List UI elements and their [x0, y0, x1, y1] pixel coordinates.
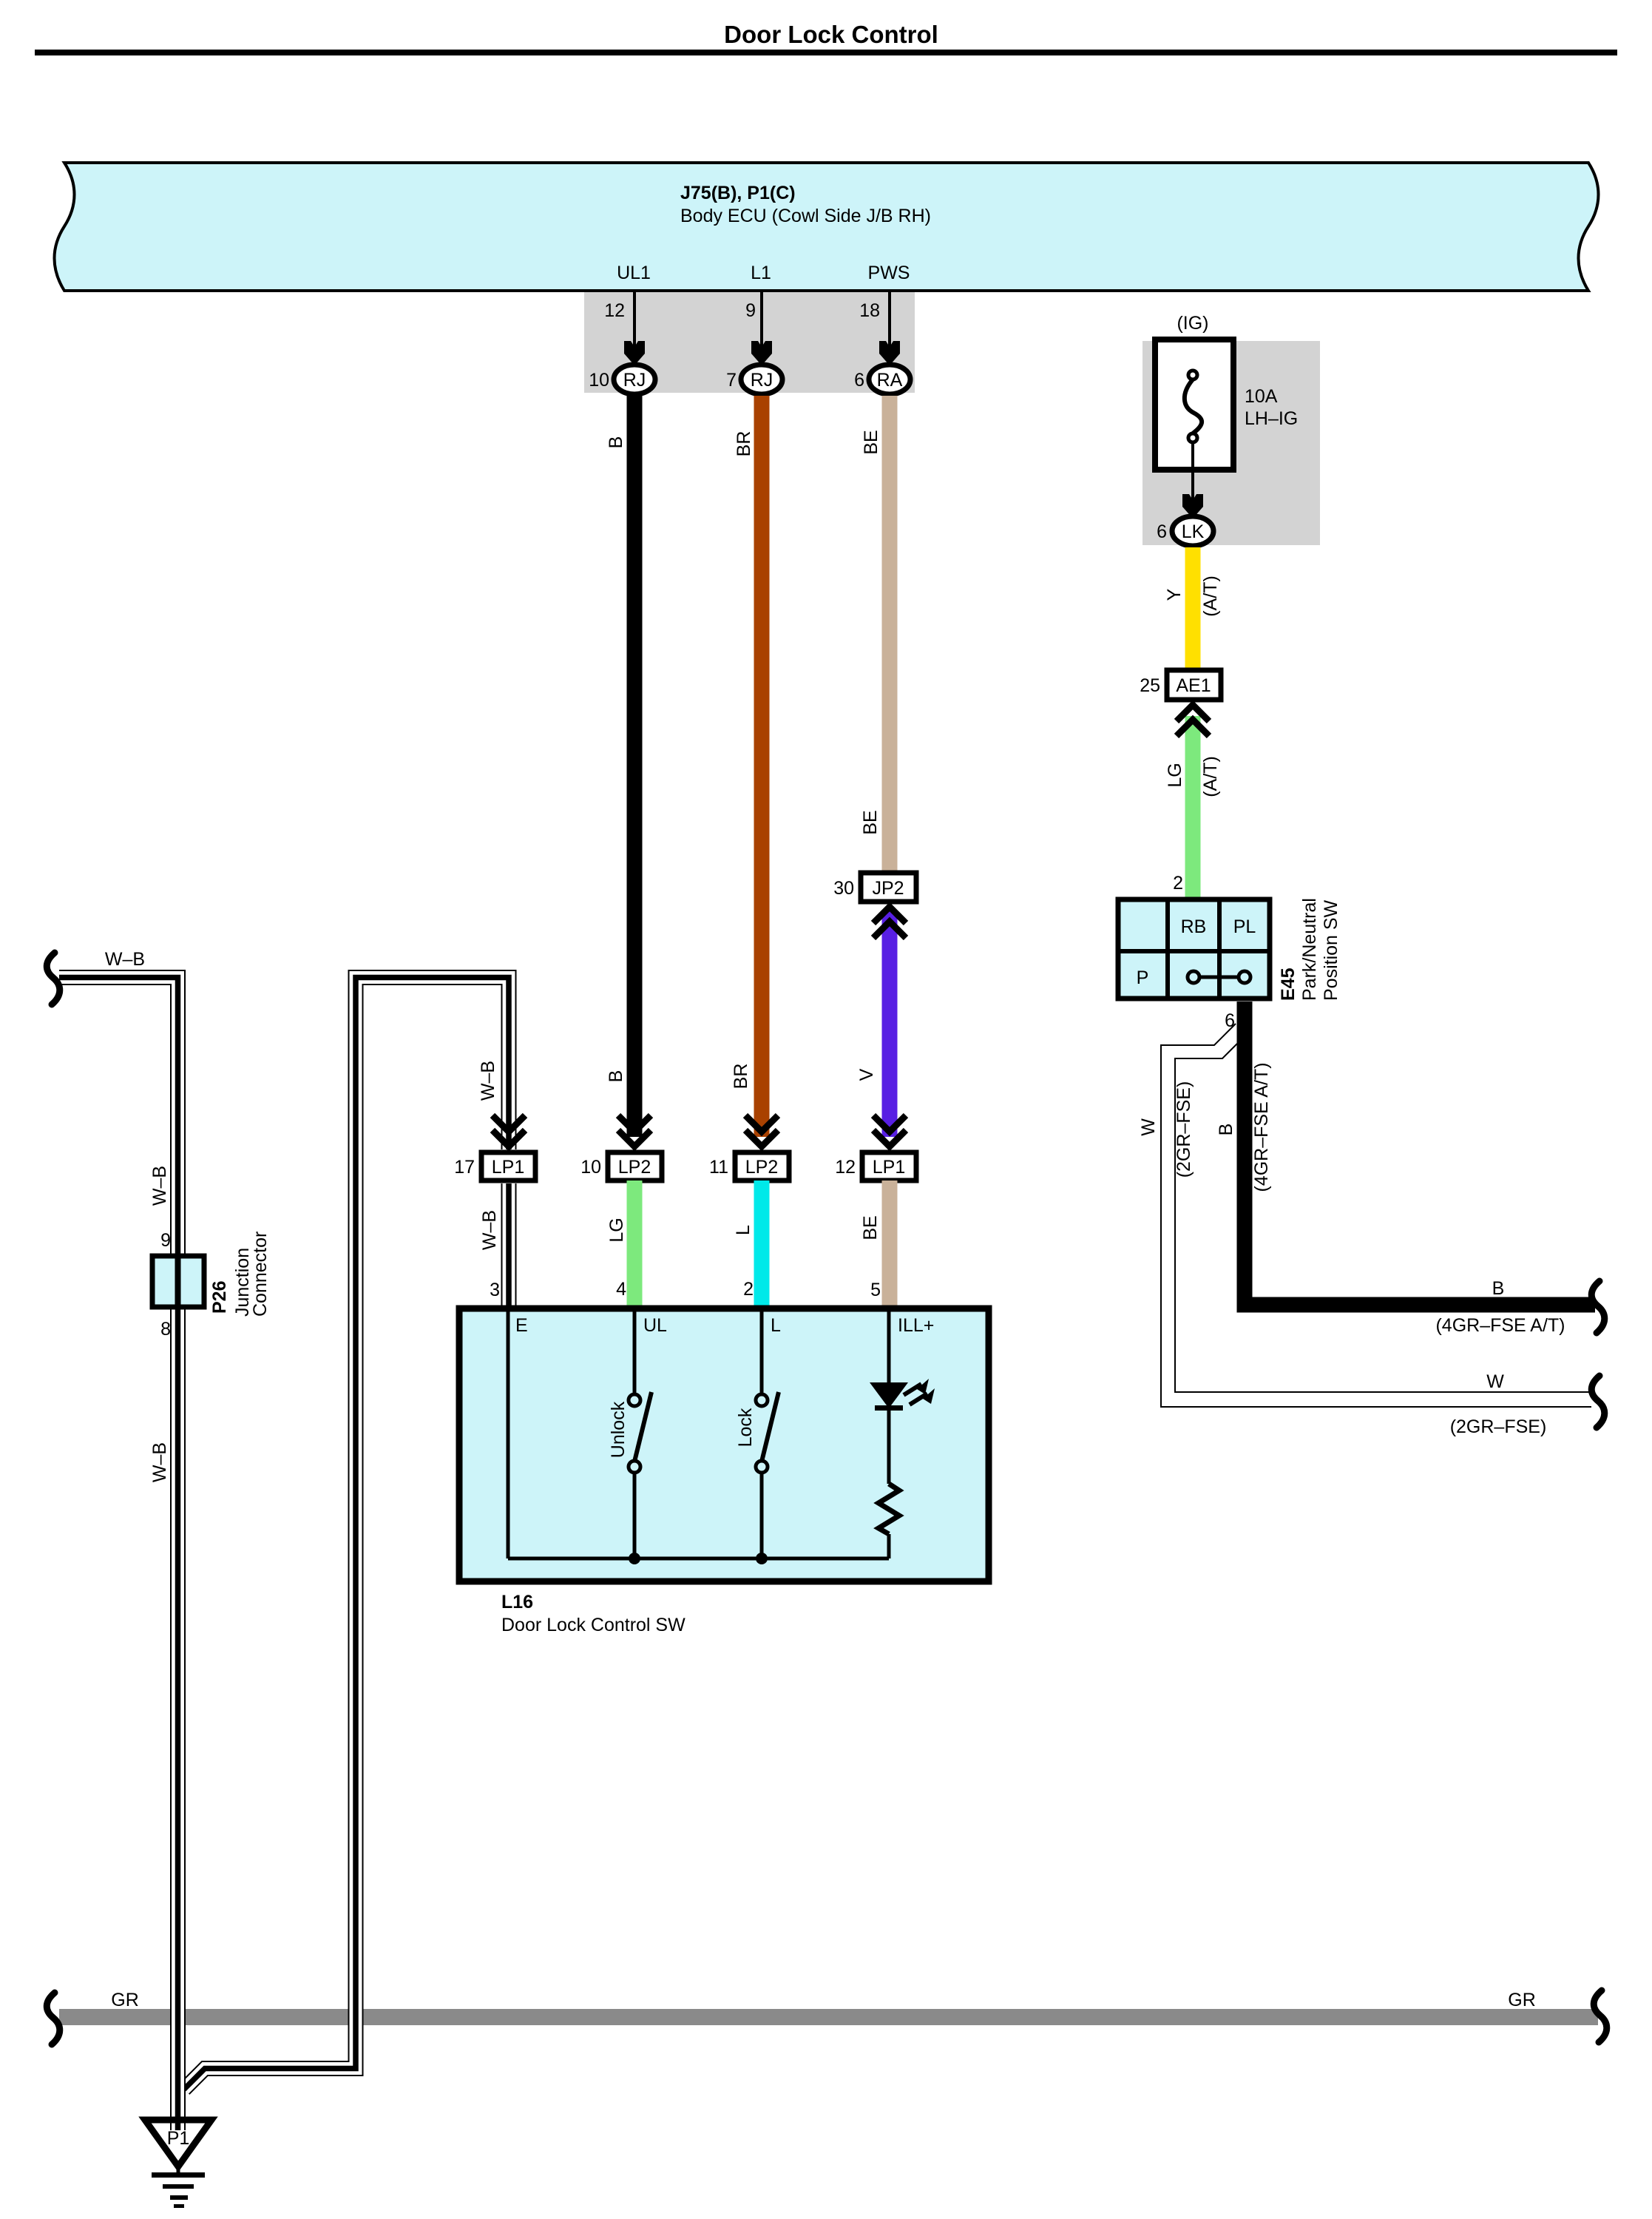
svg-text:BR: BR — [734, 431, 754, 457]
svg-text:L16: L16 — [501, 1592, 533, 1612]
svg-text:L: L — [771, 1315, 781, 1336]
svg-text:(IG): (IG) — [1177, 313, 1208, 334]
resistor — [879, 1484, 899, 1534]
svg-text:LP1: LP1 — [492, 1157, 524, 1178]
LED emission arrows — [904, 1384, 921, 1395]
svg-text:UL: UL — [643, 1315, 667, 1336]
wire BR brown from RJ7 down to LP2 — [754, 396, 770, 1137]
connector J75(B) P1(C) Body ECU box — [55, 163, 1599, 291]
svg-text:LH–IG: LH–IG — [1245, 408, 1298, 429]
svg-text:Connector: Connector — [250, 1232, 271, 1317]
svg-text:BE: BE — [860, 810, 881, 834]
component L16 Door Lock Control SW box — [459, 1308, 989, 1581]
svg-text:E45: E45 — [1278, 967, 1299, 1001]
svg-text:10: 10 — [589, 370, 609, 391]
connector oval RJ (7) — [741, 365, 782, 394]
svg-text:ILL+: ILL+ — [898, 1315, 934, 1336]
gray panel behind RJ/RA connectors — [584, 292, 915, 393]
svg-text:Y: Y — [1164, 588, 1185, 601]
wire B black (4GR-FSE A/T) from E45 pin 6 — [1245, 1002, 1595, 1305]
svg-text:V: V — [856, 1068, 877, 1081]
svg-text:6: 6 — [854, 370, 864, 391]
svg-text:W–B: W–B — [105, 949, 145, 970]
svg-text:6: 6 — [1157, 521, 1167, 542]
ground P1 — [145, 2120, 211, 2166]
svg-text:2: 2 — [1173, 873, 1183, 894]
svg-text:12: 12 — [835, 1157, 856, 1178]
svg-text:7: 7 — [726, 370, 737, 391]
svg-text:(4GR–FSE A/T): (4GR–FSE A/T) — [1435, 1315, 1565, 1336]
wire W white (2GR-FSE) from E45 pin 6 — [1161, 1024, 1591, 1407]
svg-text:25: 25 — [1140, 675, 1160, 696]
chevron down above LP2 (10) — [618, 1115, 651, 1146]
svg-text:W: W — [1138, 1118, 1159, 1136]
svg-text:E: E — [515, 1315, 528, 1336]
svg-text:BE: BE — [860, 1215, 881, 1240]
svg-text:B: B — [606, 436, 626, 449]
wire stub pin 18 to RA — [888, 291, 891, 348]
wire stub pin 9 to RJ — [760, 291, 763, 348]
svg-text:(2GR–FSE): (2GR–FSE) — [1450, 1416, 1547, 1437]
chevron down above LP1 (17) — [492, 1115, 525, 1146]
svg-text:9: 9 — [160, 1230, 171, 1251]
connector oval RJ (10) — [614, 365, 655, 394]
connector LP1 (17) — [481, 1152, 535, 1181]
svg-text:GR: GR — [1508, 1990, 1536, 2010]
svg-text:Position SW: Position SW — [1321, 899, 1341, 1001]
svg-text:LP2: LP2 — [618, 1157, 651, 1178]
internal bus — [508, 1557, 889, 1561]
chevron down above LP2 (11) — [745, 1115, 778, 1146]
chevron down above LP1 (17) redraw over wire — [492, 1115, 525, 1146]
break symbol B wire right end — [1591, 1281, 1605, 1333]
svg-text:4: 4 — [616, 1279, 626, 1300]
svg-text:L: L — [733, 1225, 754, 1235]
svg-text:9: 9 — [745, 300, 756, 321]
svg-text:LP2: LP2 — [745, 1157, 778, 1178]
svg-text:(2GR–FSE): (2GR–FSE) — [1174, 1081, 1194, 1178]
wire BE beige from RA6 down to JP2 — [882, 396, 898, 874]
wire W-B left (from break through P26 to ground P1) — [59, 978, 178, 2131]
wire W-B loop (LP1 17 up over and down left side to ground) — [184, 978, 509, 2090]
connector JP2 (30) — [861, 873, 916, 902]
svg-text:BE: BE — [861, 430, 881, 454]
svg-text:Unlock: Unlock — [608, 1401, 629, 1458]
wire stub pin 12 to RJ — [633, 291, 636, 348]
svg-text:Door Lock Control: Door Lock Control — [724, 21, 938, 48]
arrowhead into RJ — [624, 341, 645, 365]
unlock switch — [633, 1306, 637, 1394]
svg-text:BR: BR — [731, 1064, 751, 1090]
wire V violet from JP2 down to LP1 — [882, 910, 898, 1137]
wire LG green from AE1 to E45 pin 2 — [1185, 716, 1201, 901]
connector LP1 (12) — [862, 1152, 916, 1181]
svg-text:2: 2 — [743, 1279, 754, 1300]
fuse 10A LH-IG — [1155, 340, 1233, 470]
wire Y yellow from LK to AE1 — [1185, 547, 1201, 670]
title rule — [35, 50, 1617, 55]
svg-text:(A/T): (A/T) — [1200, 575, 1221, 617]
svg-text:5: 5 — [870, 1280, 881, 1300]
junction connector P26 — [152, 1256, 204, 1307]
junction dot unlock-bus — [629, 1553, 640, 1564]
connector LP2 (10) — [608, 1152, 662, 1181]
svg-text:PL: PL — [1233, 916, 1256, 937]
switch contacts in E45 — [1194, 976, 1245, 979]
svg-text:J75(B), P1(C): J75(B), P1(C) — [680, 183, 796, 203]
svg-text:JP2: JP2 — [872, 878, 904, 899]
wire E internal — [507, 1306, 510, 1558]
svg-text:UL1: UL1 — [617, 263, 651, 283]
svg-text:RA: RA — [877, 370, 903, 391]
svg-text:6: 6 — [1225, 1010, 1235, 1031]
chevron up below AE1 — [1177, 705, 1209, 736]
svg-text:Lock: Lock — [735, 1408, 756, 1447]
break symbol W wire right end — [1591, 1376, 1605, 1428]
svg-text:W–B: W–B — [149, 1442, 170, 1482]
arrowhead into RA — [879, 341, 900, 365]
svg-text:LG: LG — [606, 1217, 627, 1242]
svg-text:P1: P1 — [167, 2128, 190, 2149]
svg-text:RJ: RJ — [623, 370, 646, 391]
svg-text:W–B: W–B — [149, 1166, 170, 1206]
wire W-B segment LP1(17) to L16 pin 3 — [501, 1183, 517, 1306]
svg-text:GR: GR — [111, 1990, 139, 2010]
svg-text:B: B — [606, 1070, 626, 1083]
svg-text:8: 8 — [160, 1319, 171, 1340]
arrowhead into RJ — [751, 341, 772, 365]
svg-text:L1: L1 — [751, 263, 771, 283]
svg-text:PWS: PWS — [868, 263, 910, 283]
svg-text:LP1: LP1 — [873, 1157, 905, 1178]
svg-text:AE1: AE1 — [1176, 675, 1211, 696]
svg-text:10: 10 — [580, 1157, 601, 1178]
wire BE from LP1(12) to L16 pin 5 — [882, 1181, 898, 1306]
svg-text:RB: RB — [1181, 916, 1207, 937]
svg-text:3: 3 — [490, 1280, 500, 1300]
break symbol W-B left end — [47, 953, 60, 1004]
connector LP2 (11) — [735, 1152, 789, 1181]
connector oval RA (6) — [869, 365, 910, 394]
svg-text:B: B — [1492, 1278, 1505, 1299]
svg-text:Door Lock Control SW: Door Lock Control SW — [501, 1615, 685, 1635]
lock switch — [760, 1306, 764, 1394]
LED illumination — [887, 1306, 891, 1385]
junction dot lock-bus — [756, 1553, 768, 1564]
chevron up below JP2 — [873, 907, 906, 938]
svg-text:W–B: W–B — [479, 1210, 500, 1250]
svg-text:17: 17 — [454, 1157, 475, 1178]
svg-text:Body ECU (Cowl Side J/B RH): Body ECU (Cowl Side J/B RH) — [680, 206, 931, 226]
svg-text:W: W — [1486, 1371, 1504, 1392]
chevron down above LP1 (12) — [873, 1115, 906, 1146]
svg-text:B: B — [1216, 1124, 1236, 1136]
svg-text:RJ: RJ — [751, 370, 773, 391]
svg-text:30: 30 — [833, 878, 854, 899]
arrowhead into LK — [1182, 494, 1203, 519]
svg-text:LK: LK — [1182, 521, 1205, 542]
break symbol GR right end — [1594, 1990, 1607, 2042]
svg-text:(A/T): (A/T) — [1200, 756, 1221, 797]
GR ground bus wire — [59, 2009, 1598, 2025]
wire L cyan from LP2(11) to L16 pin 2 — [754, 1181, 770, 1306]
connector oval LK (6) — [1172, 516, 1213, 546]
svg-text:11: 11 — [709, 1157, 728, 1178]
svg-text:(4GR–FSE A/T): (4GR–FSE A/T) — [1251, 1062, 1272, 1192]
svg-text:12: 12 — [604, 300, 625, 321]
wire B black from RJ10 down to LP2 — [627, 396, 643, 1137]
svg-text:10A: 10A — [1245, 386, 1278, 407]
svg-text:LG: LG — [1165, 763, 1185, 787]
svg-text:18: 18 — [859, 300, 880, 321]
svg-text:P: P — [1137, 967, 1149, 988]
svg-text:Park/Neutral: Park/Neutral — [1299, 898, 1320, 1001]
connector E45 Park/Neutral Position SW — [1118, 899, 1270, 999]
svg-text:P26: P26 — [209, 1281, 230, 1314]
svg-text:W–B: W–B — [478, 1061, 498, 1101]
break symbol GR left end — [47, 1993, 60, 2044]
connector AE1 (25) — [1167, 670, 1221, 700]
gray panel behind fuse LH-IG — [1142, 341, 1320, 545]
wire LG from LP2(10) to L16 pin 4 — [627, 1181, 643, 1306]
ground hatch — [152, 2172, 205, 2178]
